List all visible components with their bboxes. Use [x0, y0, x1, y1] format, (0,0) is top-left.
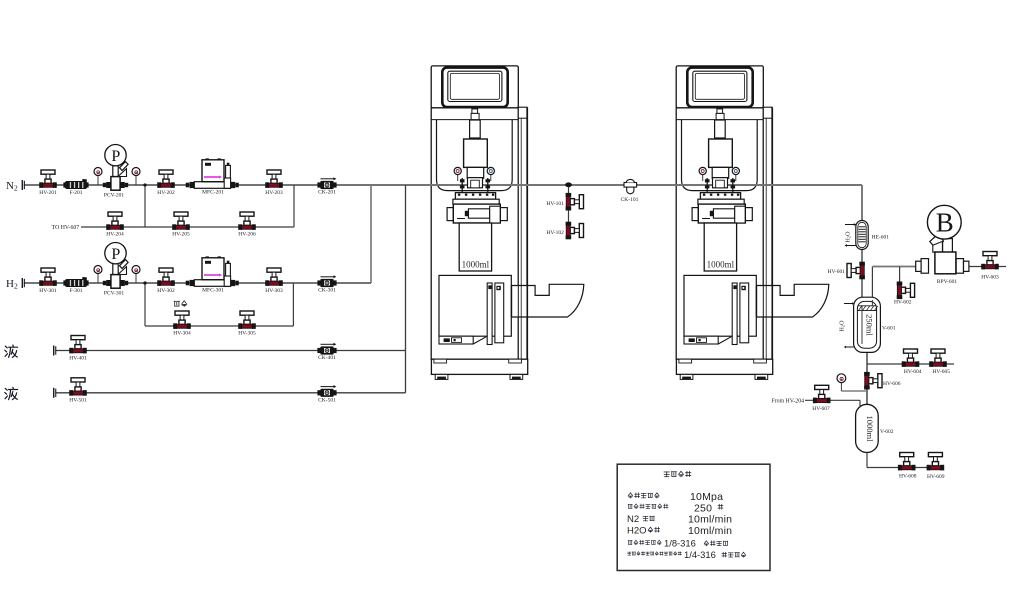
svg-text:F-201: F-201 [69, 190, 82, 196]
svg-text:From HV-204: From HV-204 [772, 399, 805, 405]
svg-text:H2O: H2O [627, 525, 647, 536]
svg-text:HV-608: HV-608 [899, 473, 917, 479]
svg-text:10ml/min: 10ml/min [688, 514, 732, 526]
svg-text:HV-605: HV-605 [932, 369, 950, 375]
svg-text:PCV-201: PCV-201 [104, 192, 125, 198]
svg-text:TO HV-607: TO HV-607 [52, 225, 80, 231]
svg-text:1000ml: 1000ml [462, 259, 490, 269]
svg-text:HV-206: HV-206 [238, 232, 256, 238]
svg-text:F-301: F-301 [69, 288, 82, 294]
svg-text:10ml/min: 10ml/min [688, 525, 732, 537]
svg-text:1000ml: 1000ml [707, 259, 735, 269]
svg-text:HV-203: HV-203 [265, 190, 283, 196]
svg-text:V-602: V-602 [880, 429, 894, 435]
svg-text:HV-101: HV-101 [546, 201, 564, 207]
svg-text:1/8-316: 1/8-316 [664, 538, 696, 549]
svg-text:HV-604: HV-604 [904, 369, 922, 375]
svg-text:CK-401: CK-401 [318, 355, 336, 361]
svg-text:10Mpa: 10Mpa [690, 491, 723, 503]
svg-text:CK-201: CK-201 [318, 189, 336, 195]
svg-text:B: B [936, 208, 954, 238]
svg-text:P: P [111, 148, 120, 165]
svg-text:HV-304: HV-304 [173, 331, 191, 337]
svg-text:HV-302: HV-302 [157, 288, 175, 294]
svg-text:HV-303: HV-303 [265, 288, 283, 294]
svg-text:250: 250 [694, 502, 712, 514]
svg-text:HV-606: HV-606 [883, 381, 901, 387]
svg-text:H2O: H2O [840, 320, 846, 332]
svg-text:HV-201: HV-201 [39, 190, 57, 196]
svg-text:HV-205: HV-205 [172, 232, 190, 238]
svg-text:BPV-601: BPV-601 [937, 279, 958, 285]
svg-text:HV-401: HV-401 [69, 355, 87, 361]
svg-text:HV-603: HV-603 [981, 275, 999, 281]
svg-text:MFC-301: MFC-301 [202, 288, 224, 294]
svg-text:HV-607: HV-607 [812, 406, 830, 412]
svg-text:N2: N2 [627, 514, 639, 525]
svg-text:HV-305: HV-305 [238, 331, 256, 337]
svg-text:HE-601: HE-601 [872, 234, 890, 240]
svg-text:HV-601: HV-601 [827, 269, 845, 275]
svg-text:H2O: H2O [846, 231, 852, 243]
svg-text:250ml: 250ml [865, 314, 875, 336]
svg-text:HV-501: HV-501 [69, 398, 87, 404]
svg-text:CK-101: CK-101 [621, 197, 639, 203]
svg-text:HV-102: HV-102 [546, 230, 564, 236]
svg-text:HV-602: HV-602 [894, 300, 912, 306]
svg-text:P: P [111, 246, 120, 263]
svg-text:1/4-316: 1/4-316 [684, 549, 716, 560]
svg-text:PCV-301: PCV-301 [104, 290, 125, 296]
svg-text:1000ml: 1000ml [865, 416, 875, 443]
svg-text:HV-609: HV-609 [927, 474, 945, 480]
svg-text:MFC-201: MFC-201 [202, 190, 224, 196]
svg-text:CK-301: CK-301 [318, 287, 336, 293]
svg-text:HV-202: HV-202 [157, 190, 175, 196]
svg-text:HV-301: HV-301 [39, 288, 57, 294]
svg-text:HV-204: HV-204 [106, 232, 124, 238]
svg-text:V-601: V-601 [882, 326, 896, 332]
svg-text:CK-501: CK-501 [318, 397, 336, 403]
